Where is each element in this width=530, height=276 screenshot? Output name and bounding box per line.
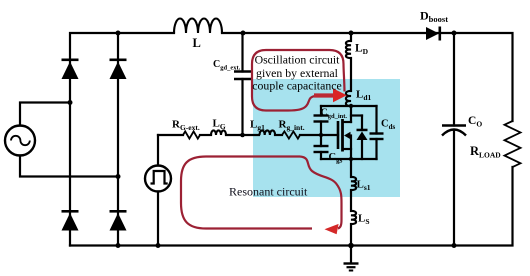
svg-text:LS: LS [358, 213, 370, 227]
svg-text:Oscillation circuit: Oscillation circuit [255, 53, 341, 67]
svg-text:LD: LD [355, 43, 369, 57]
svg-text:Cgd_ext.: Cgd_ext. [213, 59, 241, 72]
svg-text:Resonant circuit: Resonant circuit [229, 185, 308, 199]
svg-text:RLOAD: RLOAD [470, 144, 501, 160]
svg-text:CO: CO [468, 115, 482, 129]
svg-text:L: L [193, 36, 201, 50]
svg-text:LG: LG [213, 118, 226, 132]
svg-text:Dboost: Dboost [420, 9, 448, 25]
svg-text:couple capacitance: couple capacitance [252, 78, 341, 92]
svg-text:RG-ext.: RG-ext. [172, 119, 200, 133]
